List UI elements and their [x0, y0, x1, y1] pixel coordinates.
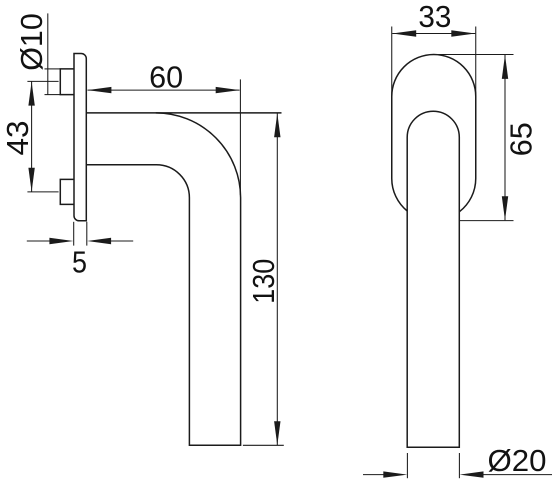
rose plate (side view): [74, 54, 86, 221]
dim 130 dimension line: [276, 113, 278, 445]
dim 43 arrow down: [28, 168, 34, 192]
dim Ø10 extension line top: [45, 68, 61, 70]
handle outline (side view): outer bend, grip, inner bend: [86, 113, 240, 445]
svg-text:5: 5: [72, 246, 87, 280]
dim 65 arrow up: [502, 55, 508, 79]
dim 5 right leader line: [111, 240, 134, 242]
dim Ø10 dimension line: [47, 13, 49, 94]
dim 5 arrow pointing right: [49, 238, 73, 244]
lower screw boss (side view): [60, 179, 74, 204]
svg-text:130: 130: [247, 259, 281, 304]
dim Ø20 extension line left: [406, 453, 408, 478]
dim 60 arrow left: [87, 87, 111, 93]
dim 43 extension line bottom: [27, 191, 58, 193]
dim 43 extension line top: [27, 80, 58, 82]
dim 60 extension line right: [239, 79, 241, 195]
svg-text:60: 60: [149, 61, 183, 95]
dim 65 extension line bottom: [460, 220, 514, 222]
dim 33 extension line left: [391, 27, 393, 97]
dim Ø20 left leader line: [363, 474, 384, 476]
dim 60 arrow right: [216, 87, 240, 93]
handle grip bar with rounded neck (front view): [407, 111, 459, 447]
svg-text:33: 33: [418, 0, 451, 34]
dim 65 extension line top: [433, 54, 514, 56]
dim Ø10 extension line bottom: [45, 94, 61, 96]
dim Ø20 arrow pointing left: [460, 471, 484, 477]
dim 60 dimension line: [88, 89, 240, 91]
dim 130 extension line bottom: [243, 444, 284, 446]
svg-text:Ø20: Ø20: [488, 444, 547, 478]
dim 130 arrow down: [274, 421, 280, 445]
dim Ø20 extension line right: [458, 453, 460, 478]
dim Ø20 arrow pointing right: [383, 471, 407, 477]
svg-text:Ø10: Ø10: [15, 13, 49, 71]
dim 33 arrow left: [392, 30, 416, 36]
svg-text:43: 43: [1, 121, 35, 156]
dim 130 arrow up: [274, 113, 280, 137]
rose plate (front view, stadium outline, interrupted by grip bar): [392, 55, 476, 212]
dim 5 left leader line: [27, 240, 50, 242]
dim 65 arrow down: [502, 196, 508, 220]
handle arm top line + extension line for 130 dim: [86, 112, 281, 114]
upper screw boss (side view): [60, 69, 74, 95]
dim 5 extension line right: [86, 222, 88, 246]
dim 5 arrow pointing left: [87, 238, 111, 244]
dim 33 arrow right: [451, 30, 475, 36]
dim Ø20 right leader line: [483, 474, 552, 476]
dim 5 extension line left: [73, 222, 75, 246]
svg-text:65: 65: [505, 122, 539, 156]
dim 43 arrow up: [28, 82, 34, 106]
dim 65 dimension line: [504, 55, 506, 221]
dim 33 dimension line: [392, 33, 475, 35]
dim 43 dimension line: [31, 81, 33, 191]
dim 33 extension line right: [475, 27, 477, 97]
